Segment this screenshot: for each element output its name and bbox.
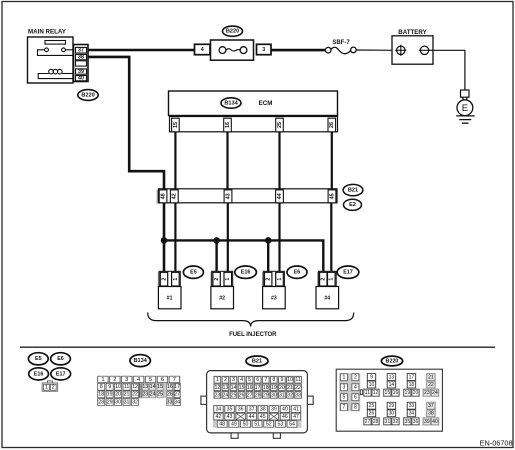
svg-text:34: 34 [174, 399, 180, 405]
svg-text:52: 52 [266, 421, 272, 427]
svg-text:36: 36 [238, 406, 244, 412]
svg-text:3: 3 [262, 47, 265, 53]
svg-text:13: 13 [223, 385, 229, 391]
svg-text:43: 43 [225, 193, 231, 199]
svg-text:38: 38 [78, 55, 84, 61]
connector label B220 (fuse) [223, 26, 243, 36]
svg-text:11: 11 [124, 384, 130, 390]
svg-text:48: 48 [219, 421, 225, 427]
svg-text:10: 10 [115, 384, 121, 390]
fuse group pins 29-32 [386, 402, 396, 418]
svg-text:B134: B134 [224, 100, 238, 106]
separator line [20, 346, 495, 348]
svg-text:44: 44 [249, 414, 255, 420]
svg-text:33: 33 [409, 403, 415, 409]
wire ECM pin to B21 (col 1) [174, 132, 176, 189]
svg-text:14: 14 [389, 382, 395, 388]
wire B21 to injector #3 pin1 [278, 203, 280, 272]
wire fuse to SBF-7 [271, 49, 325, 52]
svg-text:3: 3 [232, 377, 235, 383]
svg-text:22: 22 [295, 385, 301, 391]
svg-text:12: 12 [132, 384, 138, 390]
svg-text:1: 1 [45, 385, 48, 391]
svg-text:26: 26 [167, 392, 173, 398]
svg-text:14: 14 [231, 385, 237, 391]
svg-text:43: 43 [227, 414, 233, 420]
svg-text:E: E [462, 103, 468, 114]
svg-text:38: 38 [428, 411, 434, 417]
svg-text:21: 21 [124, 392, 130, 398]
svg-text:54: 54 [289, 421, 295, 427]
svg-text:17: 17 [255, 385, 261, 391]
fuel injector #1 connector [158, 271, 181, 309]
svg-text:9: 9 [370, 374, 373, 380]
svg-text:ECM: ECM [259, 100, 273, 107]
svg-text:20: 20 [115, 392, 121, 398]
svg-text:42: 42 [172, 193, 178, 199]
svg-text:1: 1 [173, 278, 179, 281]
svg-text:B220: B220 [81, 92, 94, 98]
svg-text:5: 5 [342, 395, 345, 401]
svg-text:27: 27 [247, 392, 253, 398]
svg-text:B134: B134 [134, 358, 148, 364]
svg-text:E6: E6 [294, 270, 301, 276]
junction dot 2 [213, 237, 220, 244]
svg-text:29: 29 [263, 392, 269, 398]
svg-text:36: 36 [413, 419, 419, 425]
connector label E5 (pinout) [28, 353, 48, 365]
connector label E17 (pinout) [51, 368, 71, 380]
svg-text:37: 37 [428, 403, 434, 409]
fusible link SBF-7 [325, 47, 356, 54]
svg-text:15: 15 [173, 122, 179, 128]
fuse group pins 13-16 [386, 373, 396, 389]
svg-text:B21: B21 [252, 358, 262, 364]
svg-text:40: 40 [282, 406, 288, 412]
svg-text:35: 35 [227, 406, 233, 412]
svg-text:6: 6 [161, 377, 164, 383]
svg-text:23: 23 [424, 390, 430, 396]
svg-text:18: 18 [263, 385, 269, 391]
connector label B21 [343, 184, 363, 195]
svg-text:3: 3 [342, 385, 345, 391]
svg-text:30: 30 [271, 392, 277, 398]
connector label E16 (pinout) [29, 368, 49, 380]
svg-text:35: 35 [405, 419, 411, 425]
fuse group pins 33-36 [406, 402, 416, 418]
wire ECM pin to B21 (col 3) [278, 132, 280, 189]
ECM connector bar [170, 117, 338, 132]
ground E [456, 90, 474, 123]
svg-text:23: 23 [142, 392, 148, 398]
svg-text:6: 6 [256, 377, 259, 383]
fuel injector #2 connector [210, 271, 233, 309]
connector bar B21/E2 [157, 189, 337, 204]
svg-text:14: 14 [150, 384, 156, 390]
svg-text:1: 1 [342, 375, 345, 381]
svg-text:32: 32 [287, 392, 293, 398]
svg-text:31: 31 [124, 399, 130, 405]
svg-text:20: 20 [413, 390, 419, 396]
svg-text:2: 2 [321, 278, 327, 281]
svg-text:#1: #1 [167, 295, 173, 301]
connector label B21 (pinout) [246, 356, 268, 366]
svg-text:28: 28 [98, 399, 104, 405]
fuse group pins 21-24 [426, 373, 436, 389]
svg-text:29: 29 [389, 403, 395, 409]
connector label E5 [183, 266, 203, 278]
svg-text:29: 29 [107, 399, 113, 405]
svg-text:16: 16 [247, 385, 253, 391]
svg-text:37: 37 [78, 48, 84, 54]
svg-text:53: 53 [277, 421, 283, 427]
connector label B134 (pinout) [130, 355, 150, 367]
svg-text:15: 15 [239, 385, 245, 391]
svg-text:30: 30 [389, 411, 395, 417]
wire B21 to injector #4 pin1 [330, 203, 332, 272]
svg-text:30: 30 [115, 399, 121, 405]
fusebox connector B220 pinout [336, 369, 442, 431]
injector supply bus [164, 240, 323, 272]
svg-text:12: 12 [214, 385, 220, 391]
svg-text:2: 2 [224, 377, 227, 383]
ECM connector B21 pinout [201, 371, 313, 439]
connector label B134 [221, 98, 241, 108]
svg-text:8: 8 [100, 384, 103, 390]
fuse group pins 9-12 [366, 373, 376, 389]
svg-text:51: 51 [254, 421, 260, 427]
svg-text:B220: B220 [226, 29, 239, 35]
svg-text:18: 18 [409, 382, 415, 388]
svg-text:45: 45 [329, 193, 335, 199]
fuse group pins 17-20 [406, 373, 416, 389]
svg-text:11: 11 [295, 377, 300, 383]
svg-text:2: 2 [354, 375, 357, 381]
fuse body [211, 40, 254, 60]
ECM box B134 [169, 91, 338, 116]
connector label B220 (pinout) [381, 356, 402, 366]
svg-text:16: 16 [167, 384, 173, 390]
svg-text:FUEL INJECTOR: FUEL INJECTOR [229, 332, 277, 338]
svg-text:12: 12 [373, 390, 379, 396]
svg-text:31: 31 [279, 392, 285, 398]
connector label E16 [235, 266, 257, 278]
svg-text:25: 25 [231, 392, 237, 398]
svg-text:13: 13 [389, 374, 395, 380]
ECM connector B134 pinout grid [97, 376, 181, 406]
fuel injector #4 connector [316, 271, 339, 309]
svg-text:5: 5 [248, 377, 251, 383]
svg-text:50: 50 [243, 421, 249, 427]
svg-text:25: 25 [369, 403, 375, 409]
svg-text:44: 44 [277, 193, 283, 199]
svg-text:22: 22 [132, 392, 138, 398]
svg-text:25: 25 [157, 392, 163, 398]
relay contact [38, 48, 74, 56]
svg-text:MAIN RELAY: MAIN RELAY [28, 29, 67, 36]
svg-text:8: 8 [272, 377, 275, 383]
wire B21 to injector #2 pin1 [227, 203, 229, 272]
svg-text:42: 42 [216, 414, 222, 420]
fuse pin 3 [257, 44, 272, 54]
svg-text:24: 24 [432, 390, 438, 396]
svg-text:6: 6 [354, 395, 357, 401]
svg-text:E16: E16 [34, 371, 44, 377]
svg-text:39: 39 [78, 69, 84, 75]
svg-text:16: 16 [225, 122, 231, 128]
wire SBF-7 to battery [356, 49, 396, 51]
svg-text:E5: E5 [190, 270, 197, 276]
svg-text:28: 28 [373, 419, 379, 425]
svg-text:47: 47 [293, 414, 299, 420]
svg-text:20: 20 [279, 385, 285, 391]
svg-text:B21: B21 [348, 188, 358, 194]
svg-text:24: 24 [223, 392, 229, 398]
wire ECM pin to B21 (col 4) [331, 132, 333, 189]
connector label B220 (relay) [78, 90, 98, 101]
svg-text:25: 25 [277, 122, 283, 128]
connector label E17 [337, 266, 359, 278]
svg-text:5: 5 [149, 377, 152, 383]
svg-text:BATTERY: BATTERY [398, 29, 427, 36]
relay pin block [74, 45, 89, 82]
svg-text:11: 11 [365, 390, 370, 396]
svg-text:15: 15 [385, 390, 391, 396]
svg-text:2: 2 [113, 377, 116, 383]
svg-text:10: 10 [287, 377, 293, 383]
junction dot 1 [161, 237, 168, 244]
svg-text:E6: E6 [57, 356, 64, 362]
svg-text:18: 18 [98, 392, 104, 398]
svg-text:26: 26 [329, 122, 335, 128]
svg-text:26: 26 [239, 392, 245, 398]
svg-text:37: 37 [249, 406, 255, 412]
svg-text:SBF-7: SBF-7 [332, 40, 350, 46]
svg-text:17: 17 [174, 384, 180, 390]
svg-text:E16: E16 [241, 270, 251, 276]
svg-text:19: 19 [271, 385, 277, 391]
injector 2-pin connector pinout [42, 381, 58, 391]
svg-text:7: 7 [342, 405, 345, 411]
connector label E2 [344, 199, 362, 210]
svg-text:1: 1 [225, 278, 231, 281]
svg-text:45: 45 [260, 414, 266, 420]
battery [392, 29, 433, 64]
fuse group pins 25-28 [366, 402, 376, 418]
svg-text:1: 1 [277, 278, 283, 281]
svg-text:2: 2 [266, 278, 272, 281]
svg-text:E17: E17 [56, 371, 66, 377]
svg-text:13: 13 [142, 384, 148, 390]
svg-text:38: 38 [260, 406, 266, 412]
svg-text:33: 33 [167, 399, 173, 405]
svg-text:3: 3 [125, 377, 128, 383]
svg-text:17: 17 [409, 374, 415, 380]
svg-text:22: 22 [428, 382, 434, 388]
svg-text:34: 34 [409, 411, 415, 417]
svg-text:7: 7 [173, 377, 176, 383]
fuel injector #3 connector [262, 271, 285, 309]
junction dot 3 [265, 237, 272, 244]
svg-text:41: 41 [293, 406, 299, 412]
svg-text:2: 2 [52, 385, 55, 391]
svg-text:16: 16 [393, 390, 399, 396]
svg-text:19: 19 [405, 390, 411, 396]
svg-text:33: 33 [295, 392, 301, 398]
svg-text:4: 4 [240, 377, 243, 383]
svg-text:1: 1 [216, 377, 219, 383]
svg-text:19: 19 [107, 392, 113, 398]
svg-text:27: 27 [365, 419, 371, 425]
svg-text:46: 46 [282, 414, 288, 420]
brace fuel injector group [148, 313, 354, 327]
svg-text:27: 27 [174, 392, 180, 398]
svg-text:39: 39 [424, 419, 430, 425]
svg-text:32: 32 [393, 419, 399, 425]
svg-text:39: 39 [271, 406, 277, 412]
svg-text:40: 40 [432, 419, 438, 425]
svg-text:9: 9 [108, 384, 111, 390]
svg-text:4: 4 [201, 47, 204, 53]
svg-text:23: 23 [214, 392, 220, 398]
wire relay pin38 to ECM pin48 and injector bus [88, 57, 164, 189]
fuse pin 4 [195, 44, 211, 54]
svg-text:21: 21 [428, 374, 434, 380]
svg-text:8: 8 [354, 405, 357, 411]
bus branch to injector #3 [267, 240, 269, 272]
svg-text:49: 49 [231, 421, 237, 427]
svg-text:#3: #3 [271, 295, 277, 301]
svg-text:15: 15 [157, 384, 163, 390]
svg-text:32: 32 [132, 399, 138, 405]
wire battery to ground [429, 50, 465, 90]
wire ECM pin to B21 (col 2) [226, 132, 228, 189]
svg-text:9: 9 [280, 377, 283, 383]
connector label E6 [287, 266, 307, 278]
main relay body [28, 37, 74, 83]
connector label E6 (pinout) [51, 353, 71, 365]
svg-text:4: 4 [354, 385, 357, 391]
fuse group pins 37-40 [426, 402, 436, 418]
svg-text:10: 10 [369, 382, 375, 388]
svg-text:34: 34 [216, 406, 222, 412]
svg-text:24: 24 [150, 392, 156, 398]
bus branch to injector #2 [215, 240, 217, 272]
svg-text:1: 1 [101, 377, 104, 383]
svg-text:28: 28 [255, 392, 261, 398]
svg-text:40: 40 [78, 76, 84, 82]
svg-text:21: 21 [287, 385, 293, 391]
svg-text:B220: B220 [386, 358, 399, 364]
svg-text:E2: E2 [349, 202, 356, 208]
relay coil [38, 69, 73, 78]
svg-text:#4: #4 [324, 295, 330, 301]
svg-text:2: 2 [214, 278, 220, 281]
svg-text:E17: E17 [343, 270, 353, 276]
svg-text:7: 7 [264, 377, 267, 383]
svg-text:1: 1 [329, 278, 335, 281]
wire B21 to injector #1 pin1 [174, 203, 176, 272]
svg-text:31: 31 [385, 419, 391, 425]
svg-text:2: 2 [161, 278, 167, 281]
svg-text:26: 26 [369, 411, 375, 417]
svg-text:48: 48 [160, 193, 166, 199]
svg-text:#2: #2 [219, 295, 225, 301]
wire pin48 down to bus [163, 203, 166, 272]
wire relay pin37 to fuse [88, 49, 195, 52]
svg-text:EN-06708: EN-06708 [480, 439, 513, 448]
svg-text:E5: E5 [35, 356, 42, 362]
